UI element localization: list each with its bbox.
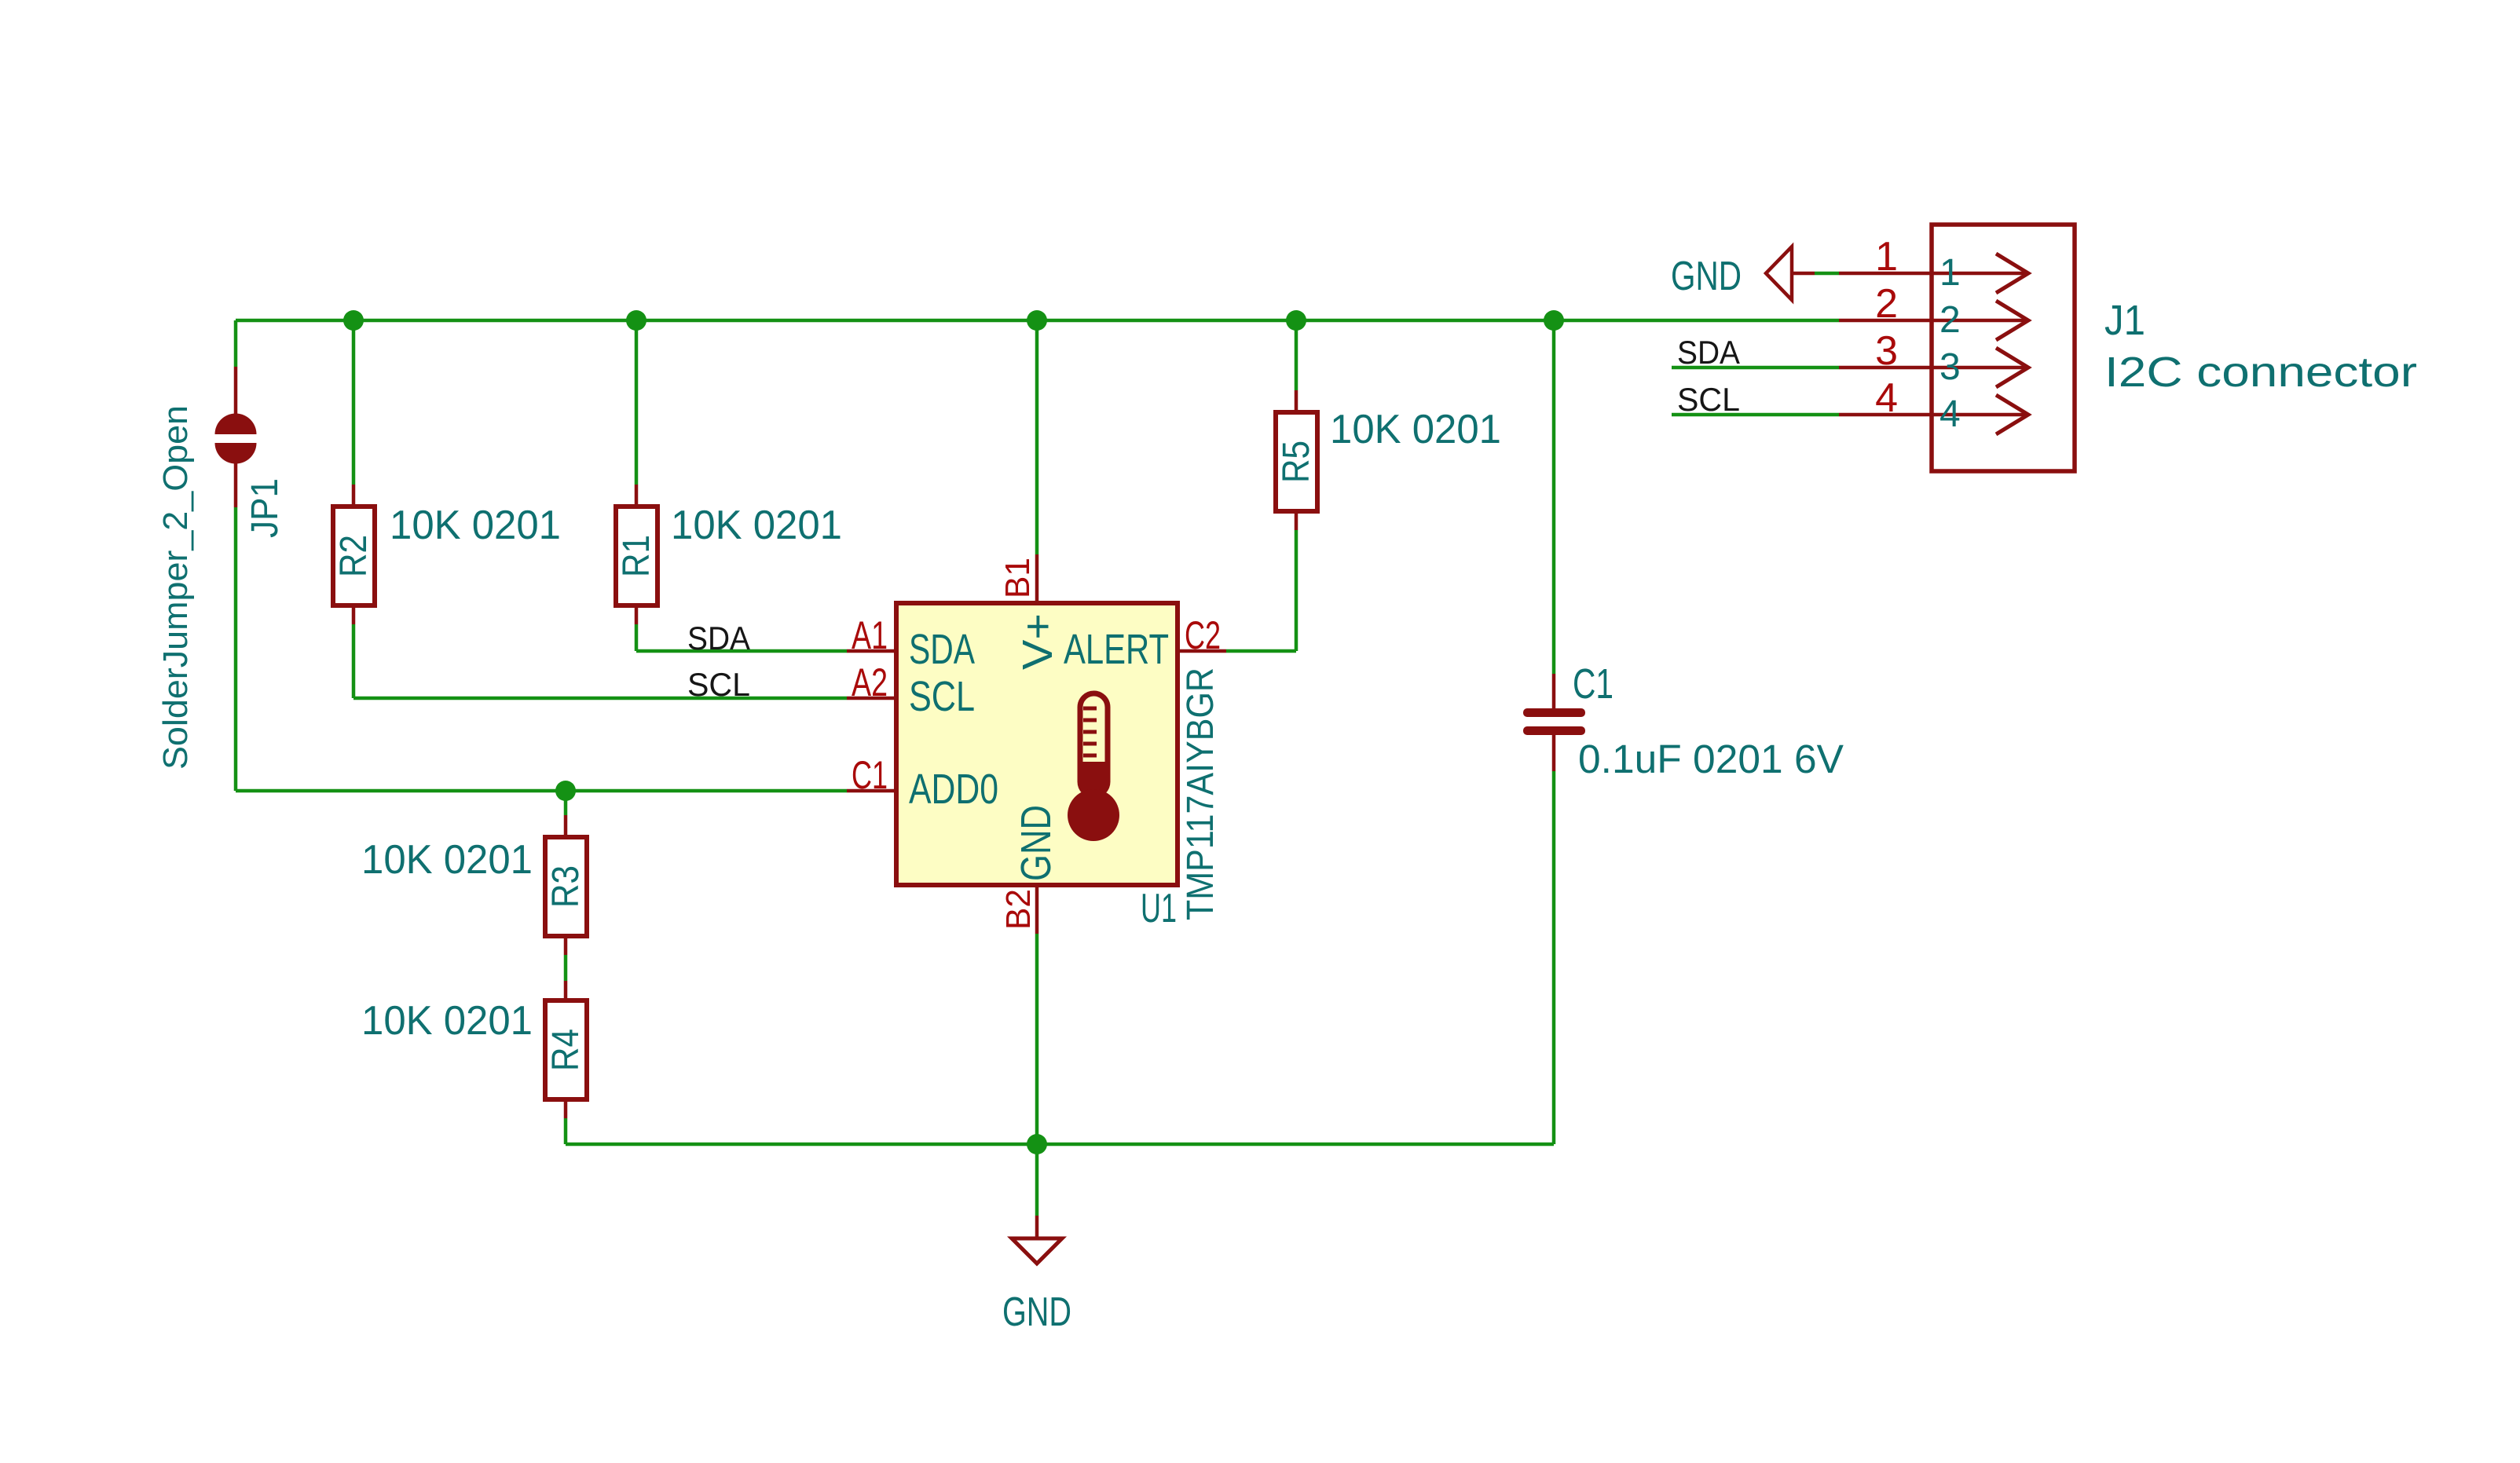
svg-text:J1: J1 — [2104, 297, 2145, 344]
svg-text:10K 0201: 10K 0201 — [390, 503, 561, 548]
svg-text:3: 3 — [1939, 346, 1961, 388]
svg-text:SDA: SDA — [687, 620, 750, 657]
svg-text:A1: A1 — [852, 613, 888, 657]
svg-text:SolderJumper_2_Open: SolderJumper_2_Open — [156, 405, 195, 770]
svg-text:R2: R2 — [333, 535, 375, 577]
svg-text:1: 1 — [1939, 252, 1961, 294]
svg-text:A2: A2 — [852, 660, 888, 704]
svg-text:C2: C2 — [1185, 613, 1221, 657]
svg-text:2: 2 — [1875, 281, 1898, 327]
svg-text:U1: U1 — [1141, 886, 1177, 931]
svg-text:3: 3 — [1875, 328, 1898, 374]
svg-text:SCL: SCL — [687, 666, 750, 703]
svg-text:4: 4 — [1939, 393, 1961, 435]
svg-text:10K 0201: 10K 0201 — [361, 998, 533, 1044]
svg-text:SCL: SCL — [1677, 381, 1740, 418]
svg-text:SDA: SDA — [1677, 334, 1740, 371]
svg-text:R5: R5 — [1276, 441, 1317, 483]
svg-text:SCL: SCL — [909, 673, 975, 720]
svg-text:TMP117AIYBGR: TMP117AIYBGR — [1180, 667, 1222, 920]
svg-text:R1: R1 — [616, 535, 657, 577]
svg-text:4: 4 — [1875, 375, 1898, 421]
svg-text:10K 0201: 10K 0201 — [671, 503, 842, 548]
svg-text:B2: B2 — [999, 889, 1038, 930]
svg-text:R3: R3 — [545, 865, 587, 908]
svg-text:I2C connector: I2C connector — [2104, 349, 2417, 396]
svg-text:R4: R4 — [545, 1029, 587, 1071]
svg-text:1: 1 — [1875, 234, 1898, 280]
svg-text:GND: GND — [1002, 1289, 1071, 1335]
svg-text:ADD0: ADD0 — [909, 766, 998, 813]
svg-text:V+: V+ — [1014, 613, 1061, 670]
svg-text:0.1uF 0201 6V: 0.1uF 0201 6V — [1578, 737, 1844, 781]
svg-text:C1: C1 — [852, 753, 888, 797]
svg-text:B1: B1 — [998, 558, 1037, 598]
svg-text:2: 2 — [1939, 299, 1961, 341]
svg-text:10K 0201: 10K 0201 — [1330, 407, 1501, 452]
svg-text:GND: GND — [1013, 805, 1060, 881]
svg-text:C1: C1 — [1573, 660, 1613, 708]
svg-text:SDA: SDA — [909, 626, 975, 673]
svg-text:JP1: JP1 — [244, 478, 286, 538]
svg-text:GND: GND — [1671, 254, 1742, 299]
svg-text:10K 0201: 10K 0201 — [361, 837, 533, 883]
svg-text:ALERT: ALERT — [1064, 626, 1169, 673]
